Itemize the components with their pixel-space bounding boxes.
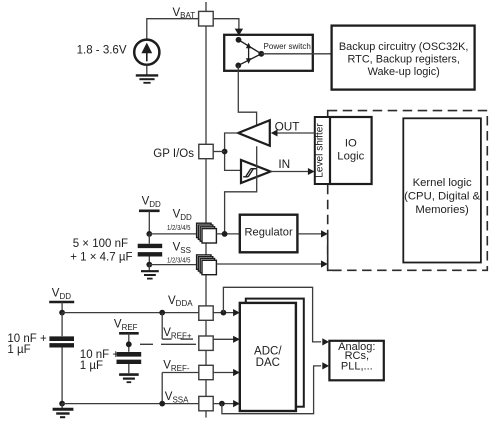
- wire VDDA to analog block top route: [223, 287, 321, 342]
- svg-text:Memories): Memories): [415, 204, 469, 216]
- ADC/DAC back box: [246, 299, 304, 407]
- node VDDA rail dot: [59, 310, 65, 316]
- svg-text:(CPU, Digital &: (CPU, Digital &: [404, 190, 480, 202]
- node VREF dot: [126, 341, 132, 347]
- wire level shifter to OUT buffer: [277, 132, 315, 134]
- wire dot to VSS pins: [149, 264, 203, 266]
- svg-text:ADC/: ADC/: [254, 345, 282, 357]
- kernel logic box: [403, 118, 481, 262]
- svg-text:IO: IO: [345, 137, 357, 149]
- wire VREF- pin to ADC: [213, 372, 233, 374]
- wire VSSA pin to ADC: [213, 403, 233, 405]
- regulator box: [240, 215, 298, 253]
- wire domain box corner solid segment: [327, 232, 329, 272]
- analog block box: [329, 341, 383, 381]
- wire source to ground: [146, 65, 148, 75]
- node VREF- pin: [199, 365, 213, 379]
- wire switch bottom to OUT buffer supply: [238, 65, 256, 126]
- svg-text:1 µF: 1 µF: [7, 344, 30, 356]
- svg-text:RTC, Backup registers,: RTC, Backup registers,: [348, 54, 460, 66]
- capacitor 10nF+1uF (VDD): [61, 313, 63, 337]
- dashed domain box: [328, 111, 488, 271]
- svg-text:+ 1 × 4.7 µF: + 1 × 4.7 µF: [70, 251, 132, 263]
- pins VDD 1..5 stack: [197, 223, 217, 243]
- wire IN buffer supply to VDD net: [225, 146, 257, 233]
- power switch symbol: [239, 40, 262, 54]
- node regulator input dot: [222, 231, 228, 237]
- node VDDA pin: [199, 306, 213, 320]
- ground under cap: [148, 265, 150, 271]
- wire switch to backup box: [261, 53, 331, 55]
- svg-text:1 µF: 1 µF: [80, 360, 103, 372]
- op-amp IN buffer (schmitt): [241, 160, 271, 183]
- IO logic box: [330, 117, 372, 184]
- node VSSA pin: [199, 396, 213, 410]
- wire VBAT to power switch: [213, 19, 239, 30]
- pins VSS 1..5 stack: [197, 255, 217, 275]
- svg-text:Logic: Logic: [337, 150, 364, 162]
- node GPIO dot: [222, 149, 228, 155]
- ADC/DAC front box: [240, 303, 296, 411]
- node VREF+ pin: [199, 336, 213, 350]
- capacitor 5x100nF: [148, 234, 150, 244]
- wire VREF+ tie to VDDA: [159, 310, 165, 316]
- op-amp OUT buffer: [238, 120, 270, 146]
- node VDD cap dot: [146, 231, 152, 237]
- wire VREF dashed link: [140, 343, 196, 345]
- battery source V1: [134, 40, 159, 65]
- node VBAT pin: [199, 11, 214, 26]
- svg-text:IN: IN: [278, 157, 290, 171]
- wire VSS to kernel domain: [216, 263, 321, 265]
- wire GPIO pin to dot: [213, 151, 224, 153]
- svg-text:Level shifter: Level shifter: [315, 122, 326, 177]
- wire VREF+ pin to ADC: [213, 338, 233, 340]
- svg-text:10 nF +: 10 nF +: [7, 333, 47, 345]
- node GP I/Os pin: [199, 144, 213, 158]
- svg-text:Power switch: Power switch: [264, 41, 312, 51]
- svg-text:DAC: DAC: [256, 357, 280, 369]
- svg-text:1/2/3/4/5: 1/2/3/4/5: [167, 223, 191, 232]
- node VSSA rail dot left: [59, 401, 65, 407]
- svg-text:1/2/3/4/5: 1/2/3/4/5: [167, 256, 191, 265]
- svg-text:OUT: OUT: [275, 119, 300, 133]
- capacitor 10nF+1uF (VREF): [117, 352, 142, 357]
- ground lower left: [61, 404, 63, 408]
- wire VSSA rail: [62, 403, 199, 405]
- svg-text:1.8 - 3.6V: 1.8 - 3.6V: [77, 45, 127, 57]
- wire regulator to kernel domain: [297, 233, 321, 235]
- wire dot to VDD pins: [149, 233, 203, 235]
- wire VSSA to analog block bottom route: [222, 366, 321, 414]
- svg-text:GP I/Os: GP I/Os: [153, 148, 194, 160]
- node VSS cap dot: [146, 262, 152, 268]
- wire VREF- tie to VSSA: [162, 372, 199, 374]
- wire VDDA pin to ADC: [213, 312, 233, 314]
- ground under VREF cap: [119, 375, 139, 383]
- power switch box: [224, 35, 313, 71]
- svg-text:Backup circuitry (OSC32K,: Backup circuitry (OSC32K,: [339, 41, 469, 53]
- wire VDDA rail: [62, 312, 199, 314]
- ground under source: [136, 75, 158, 82]
- level shifter box: [315, 117, 330, 184]
- wire VBAT to source: [147, 19, 199, 40]
- wire main pin rail: [205, 2, 207, 418]
- svg-text:5 × 100 nF: 5 × 100 nF: [73, 238, 128, 250]
- svg-text:PLL,...: PLL,...: [341, 360, 373, 372]
- wire IN buffer to level shifter: [270, 171, 309, 173]
- svg-text:Wake-up logic): Wake-up logic): [368, 66, 440, 78]
- svg-text:Regulator: Regulator: [245, 227, 293, 239]
- svg-text:Kernel logic: Kernel logic: [413, 177, 472, 189]
- wire OUT tip to GPIO node and IN input: [225, 133, 241, 170]
- backup circuitry box: [332, 26, 475, 90]
- wire VDD net to regulator: [216, 233, 239, 235]
